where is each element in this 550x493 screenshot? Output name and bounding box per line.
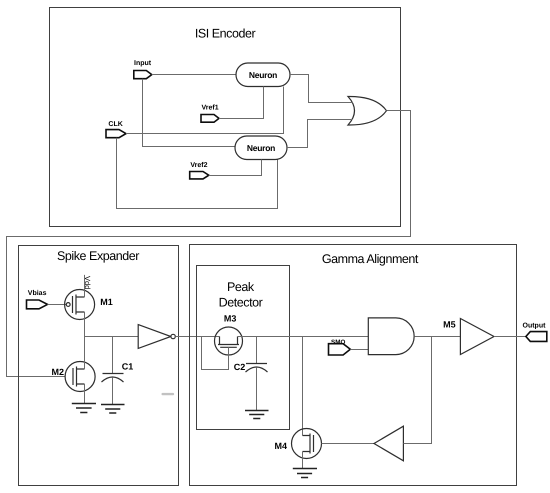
- port SMO flag: [329, 344, 351, 355]
- container box: Gamma Alignment: [190, 245, 517, 486]
- wire: Vbias to M1 gate: [48, 304, 67, 306]
- wire: OR gate output down and across to M2 gate: [7, 111, 411, 377]
- svg-text:Gamma Alignment: Gamma Alignment: [322, 252, 419, 266]
- svg-text:Neuron: Neuron: [247, 143, 275, 153]
- wire: CLK to Neuron1 bottom: [126, 87, 284, 134]
- port Vbias flag: [27, 300, 48, 309]
- svg-text:M5: M5: [443, 319, 456, 329]
- svg-text:M4: M4: [275, 441, 288, 451]
- wire: M3 source to AND gate input rail: [238, 336, 369, 338]
- wire: SMO to AND gate bottom input: [350, 349, 368, 351]
- wire: CLK loop to Neuron2 bottom: [117, 138, 278, 209]
- svg-text:C2: C2: [234, 362, 246, 372]
- ground (C1): [101, 405, 125, 414]
- power Vdd lead: [84, 275, 86, 297]
- transistor M2 (NMOS): [65, 362, 95, 392]
- container box: ISI Encoder: [50, 8, 401, 227]
- transistor M1 (PMOS): [65, 290, 95, 320]
- svg-text:Detector: Detector: [219, 296, 263, 310]
- neuron U1 (top Neuron block): [236, 63, 290, 87]
- wire: AND output to M5 buffer input: [414, 336, 460, 338]
- wire: M1 source down to node: [84, 312, 86, 337]
- wire: Input to Neuron1 input: [152, 74, 236, 76]
- svg-text:Vdd: Vdd: [83, 276, 92, 289]
- svg-text:ISI Encoder: ISI Encoder: [195, 26, 256, 40]
- neuron U2 (bottom Neuron block): [235, 136, 287, 160]
- capacitor C2: [246, 337, 268, 411]
- svg-text:CLK: CLK: [108, 121, 122, 128]
- wire: Input down to Neuron2 input: [143, 79, 236, 147]
- inverter A1 (spike expander output buffer with bubble): [138, 325, 171, 349]
- svg-text:Vref2: Vref2: [190, 161, 207, 169]
- wire: M4 source to ground: [302, 452, 304, 470]
- ground (M2 source): [72, 404, 96, 413]
- ground (C2): [245, 411, 269, 419]
- svg-text:M1: M1: [100, 297, 113, 307]
- port Output flag: [526, 332, 547, 342]
- svg-text:M2: M2: [52, 367, 65, 377]
- wire: node to inverter input: [85, 336, 139, 338]
- svg-text:Output: Output: [523, 322, 547, 329]
- wire: M4 gate to feedback inverter output: [322, 443, 375, 445]
- svg-text:Neuron: Neuron: [249, 70, 277, 80]
- svg-text:Vref1: Vref1: [202, 104, 219, 112]
- wire: Neuron2 output to OR gate bottom input: [287, 120, 353, 148]
- svg-text:M3: M3: [224, 314, 237, 324]
- svg-text:Input: Input: [134, 60, 152, 67]
- ground (M4): [293, 469, 317, 478]
- svg-text:Spike Expander: Spike Expander: [57, 249, 139, 263]
- wire: Neuron1 output to OR gate top input: [290, 75, 353, 103]
- container box: Peak Detector: [197, 266, 290, 430]
- wire: feedback tap from AND output down to buffer input: [403, 337, 431, 444]
- and-gate G2: [368, 318, 414, 355]
- buffer A2 (feedback, points left): [374, 426, 403, 461]
- wire: M2 drain up to node: [84, 337, 86, 370]
- port Vref1 flag: [201, 115, 219, 123]
- wire: rail junction down to M4 drain: [302, 337, 304, 436]
- container box: Spike Expander: [19, 246, 179, 486]
- transistor M4 (NMOS, mirrored gate-right): [292, 429, 322, 459]
- svg-text:Peak: Peak: [227, 280, 255, 294]
- port CLK flag: [106, 130, 126, 138]
- transistor M3 (diode connected, rotated gate-down): [215, 327, 243, 355]
- capacitor C1: [102, 337, 124, 405]
- buffer M5: [460, 319, 494, 355]
- svg-text:Vbias: Vbias: [28, 289, 47, 297]
- wire: inverter output to M3 drain: [175, 336, 219, 338]
- wire: M5 output to Output port: [494, 336, 526, 338]
- wire: M3 gate loop to drain (diode connection): [202, 337, 229, 370]
- or-gate G1: [348, 96, 387, 125]
- wire: M2 source to ground: [84, 384, 86, 404]
- faint placeholder text artifact: [162, 393, 175, 395]
- svg-text:C1: C1: [122, 361, 134, 371]
- wire: Vref1 to Neuron1 bottom: [219, 87, 264, 119]
- wire: Vref2 to Neuron2 bottom: [209, 160, 262, 176]
- port Vref2 flag: [190, 172, 209, 179]
- port Input flag: [134, 71, 152, 79]
